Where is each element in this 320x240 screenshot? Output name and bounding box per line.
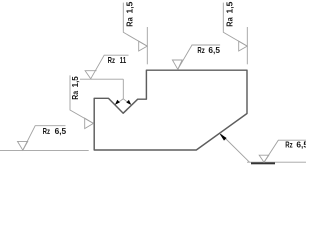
extension line top-right: [246, 27, 248, 64]
roughness symbol Ra 1,5 (left edge, rotated): [70, 75, 93, 128]
svg-text:Rz11: Rz11: [108, 55, 127, 65]
roughness symbol Ra 1,5 (top-right, on extension line, rotated): [223, 3, 247, 51]
leader to V-notch: vertical: [122, 79, 124, 99]
arrow on left notch face: [115, 100, 120, 105]
svg-text:Ra1,5: Ra1,5: [125, 1, 135, 26]
arrow at chamfer: [219, 133, 226, 140]
roughness symbol Rz 11 (on notch leader line): [85, 55, 128, 79]
roughness symbol Rz 6,5 (on raised top edge): [172, 45, 220, 69]
leader to V-notch faces: horizontal: [80, 78, 123, 80]
extension line bottom-left (bottom edge extended left): [0, 149, 89, 151]
roughness symbol Rz 6,5 (bottom-right, on leader): [259, 140, 306, 162]
extension line top-left (from raised top edge corner up): [146, 27, 148, 64]
svg-text:Rz6,5: Rz6,5: [285, 140, 306, 150]
leader fork right: [123, 99, 130, 104]
arrow on right notch face: [126, 100, 131, 105]
svg-text:Rz6,5: Rz6,5: [197, 45, 220, 55]
roughness symbol Rz 6,5 (bottom-left, on extension line): [18, 126, 66, 151]
leader with arrow to chamfer (bottom-right): [220, 133, 250, 162]
svg-text:Ra1,5: Ra1,5: [225, 1, 235, 26]
leader fork left: [117, 99, 124, 104]
thick bar under bottom-right symbol: [251, 162, 275, 164]
leader horizontal shelf line (bottom-right): [247, 161, 306, 163]
svg-text:Rz6,5: Rz6,5: [43, 126, 67, 136]
roughness symbol Ra 1,5 (top-left, on extension line, rotated): [123, 3, 147, 51]
svg-text:Ra1,5: Ra1,5: [70, 76, 80, 100]
part outline: [94, 70, 247, 150]
